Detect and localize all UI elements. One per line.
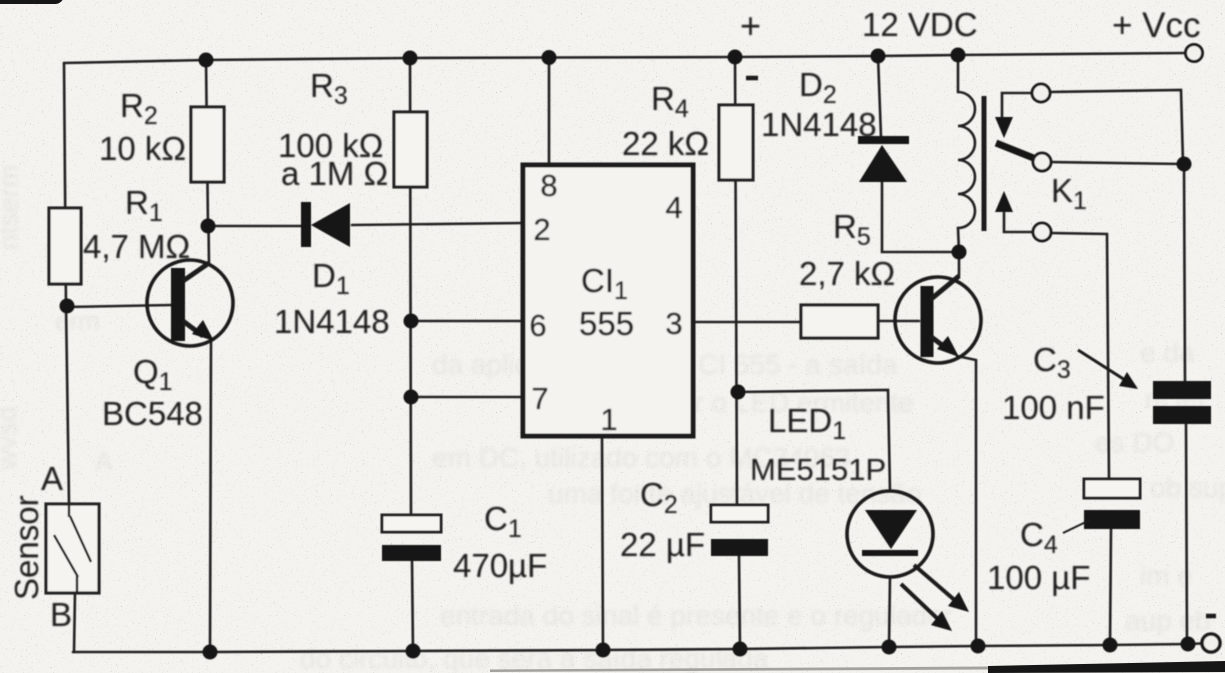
svg-text:+ Vcc: + Vcc <box>1112 6 1201 45</box>
svg-text:4,7 MΩ: 4,7 MΩ <box>83 228 190 265</box>
svg-text:ntserm: ntserm <box>0 164 24 250</box>
svg-text:6: 6 <box>529 308 546 343</box>
svg-text:A: A <box>95 446 113 476</box>
svg-text:4: 4 <box>665 190 682 225</box>
svg-text:es DO: es DO <box>1095 427 1174 458</box>
svg-text:1: 1 <box>600 402 617 437</box>
svg-text:2,7 kΩ: 2,7 kΩ <box>799 255 895 292</box>
svg-text:entrada do sinal é presente e: entrada do sinal é presente e o regulado… <box>440 600 952 631</box>
svg-text:Sensor: Sensor <box>8 495 45 600</box>
svg-text:7: 7 <box>531 381 548 416</box>
svg-text:1N4148: 1N4148 <box>274 303 390 340</box>
svg-text:3: 3 <box>665 306 682 341</box>
svg-text:22 µF: 22 µF <box>620 526 705 563</box>
svg-text:470µF: 470µF <box>453 547 547 584</box>
svg-text:A: A <box>41 460 63 497</box>
svg-text:555: 555 <box>579 305 634 342</box>
svg-text:wvsd: wvsd <box>0 406 22 471</box>
svg-text:100 µF: 100 µF <box>987 559 1090 596</box>
svg-text:1N4148: 1N4148 <box>761 106 877 143</box>
svg-text:e da: e da <box>1140 337 1195 368</box>
svg-text:im e: im e <box>1140 560 1193 591</box>
svg-text:+: + <box>740 5 761 46</box>
svg-text:BC548: BC548 <box>102 395 203 432</box>
svg-text:8: 8 <box>540 168 557 203</box>
svg-text:aup eb: aup eb <box>1125 605 1211 636</box>
svg-text:100 nF: 100 nF <box>1002 389 1105 426</box>
svg-text:22 kΩ: 22 kΩ <box>622 125 709 162</box>
svg-text:10 kΩ: 10 kΩ <box>99 130 186 167</box>
svg-text:2: 2 <box>533 212 550 247</box>
svg-text:12 VDC: 12 VDC <box>862 6 978 43</box>
svg-text:a 1M Ω: a 1M Ω <box>281 155 388 192</box>
svg-text:B: B <box>50 596 72 633</box>
svg-text:ME5151P: ME5151P <box>750 452 886 487</box>
